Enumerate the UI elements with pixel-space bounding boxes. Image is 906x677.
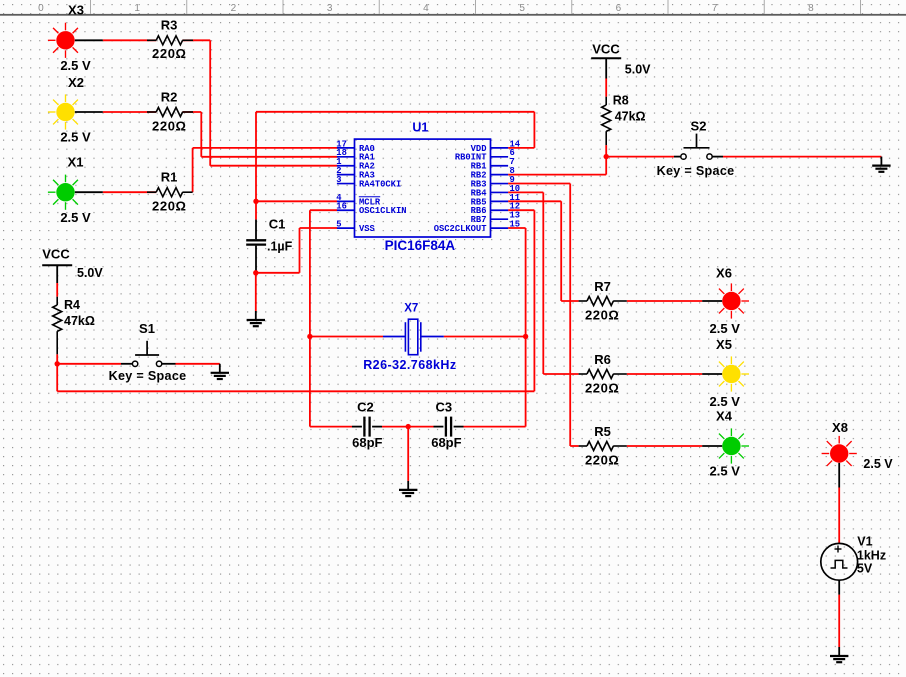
- svg-text:R6: R6: [594, 352, 611, 367]
- svg-text:C2: C2: [357, 399, 374, 414]
- svg-text:X1: X1: [68, 155, 84, 170]
- svg-text:5: 5: [336, 219, 341, 229]
- svg-text:X3: X3: [68, 3, 84, 18]
- svg-text:X2: X2: [68, 75, 84, 90]
- svg-text:PIC16F84A: PIC16F84A: [385, 238, 456, 253]
- svg-text:1: 1: [134, 3, 140, 14]
- svg-text:5.0V: 5.0V: [625, 63, 651, 77]
- svg-text:3: 3: [336, 175, 341, 185]
- svg-text:RA4T0CKI: RA4T0CKI: [359, 179, 401, 189]
- svg-text:S2: S2: [691, 119, 707, 134]
- svg-text:5: 5: [519, 3, 525, 14]
- svg-text:4: 4: [423, 3, 429, 14]
- svg-text:.1µF: .1µF: [267, 240, 293, 254]
- svg-text:2.5 V: 2.5 V: [60, 58, 91, 73]
- svg-text:R7: R7: [594, 279, 611, 294]
- svg-text:S1: S1: [139, 321, 155, 336]
- svg-text:C1: C1: [269, 217, 286, 232]
- svg-text:VCC: VCC: [592, 42, 620, 57]
- svg-text:5V: 5V: [857, 562, 873, 576]
- svg-text:0: 0: [38, 3, 44, 14]
- svg-text:X7: X7: [404, 303, 418, 315]
- svg-text:2.5 V: 2.5 V: [710, 394, 741, 409]
- svg-text:X6: X6: [716, 266, 732, 281]
- svg-text:X8: X8: [832, 420, 848, 435]
- svg-text:220Ω: 220Ω: [152, 46, 187, 61]
- svg-text:2.5 V: 2.5 V: [60, 130, 91, 145]
- svg-text:8: 8: [808, 3, 814, 14]
- svg-text:220Ω: 220Ω: [585, 453, 620, 468]
- svg-text:2.5 V: 2.5 V: [710, 321, 741, 336]
- svg-text:X4: X4: [716, 409, 733, 424]
- svg-text:VSS: VSS: [359, 224, 375, 234]
- svg-text:R8: R8: [613, 94, 629, 108]
- svg-text:OSC1CLKIN: OSC1CLKIN: [359, 206, 407, 216]
- svg-text:VCC: VCC: [42, 247, 70, 262]
- svg-text:47kΩ: 47kΩ: [615, 110, 646, 124]
- svg-text:1kHz: 1kHz: [857, 549, 886, 563]
- svg-text:220Ω: 220Ω: [585, 308, 620, 323]
- svg-text:16: 16: [336, 202, 347, 212]
- svg-text:3: 3: [327, 3, 333, 14]
- svg-text:R3: R3: [161, 18, 178, 33]
- svg-text:6: 6: [616, 3, 622, 14]
- svg-text:2.5 V: 2.5 V: [710, 464, 741, 479]
- svg-text:220Ω: 220Ω: [585, 381, 620, 396]
- svg-text:2.5 V: 2.5 V: [60, 210, 91, 225]
- svg-text:2: 2: [231, 3, 237, 14]
- svg-text:C3: C3: [435, 399, 452, 414]
- svg-text:R4: R4: [64, 298, 80, 312]
- svg-text:R26-32.768kHz: R26-32.768kHz: [363, 358, 456, 372]
- svg-text:68pF: 68pF: [431, 435, 461, 450]
- svg-text:47kΩ: 47kΩ: [64, 314, 95, 328]
- svg-text:R2: R2: [161, 89, 178, 104]
- svg-text:7: 7: [712, 3, 718, 14]
- svg-text:R1: R1: [161, 170, 178, 185]
- svg-text:220Ω: 220Ω: [152, 118, 187, 133]
- svg-text:5.0V: 5.0V: [77, 266, 103, 280]
- svg-text:220Ω: 220Ω: [152, 199, 187, 214]
- svg-text:Key = Space: Key = Space: [657, 164, 735, 178]
- svg-text:68pF: 68pF: [352, 435, 382, 450]
- svg-text:X5: X5: [716, 337, 732, 352]
- svg-text:2.5 V: 2.5 V: [863, 457, 893, 471]
- svg-text:Key = Space: Key = Space: [109, 369, 187, 383]
- svg-text:15: 15: [510, 219, 521, 229]
- svg-text:OSC2CLKOUT: OSC2CLKOUT: [434, 224, 488, 234]
- svg-text:R5: R5: [594, 424, 611, 439]
- svg-text:U1: U1: [412, 121, 428, 135]
- svg-text:V1: V1: [857, 535, 872, 549]
